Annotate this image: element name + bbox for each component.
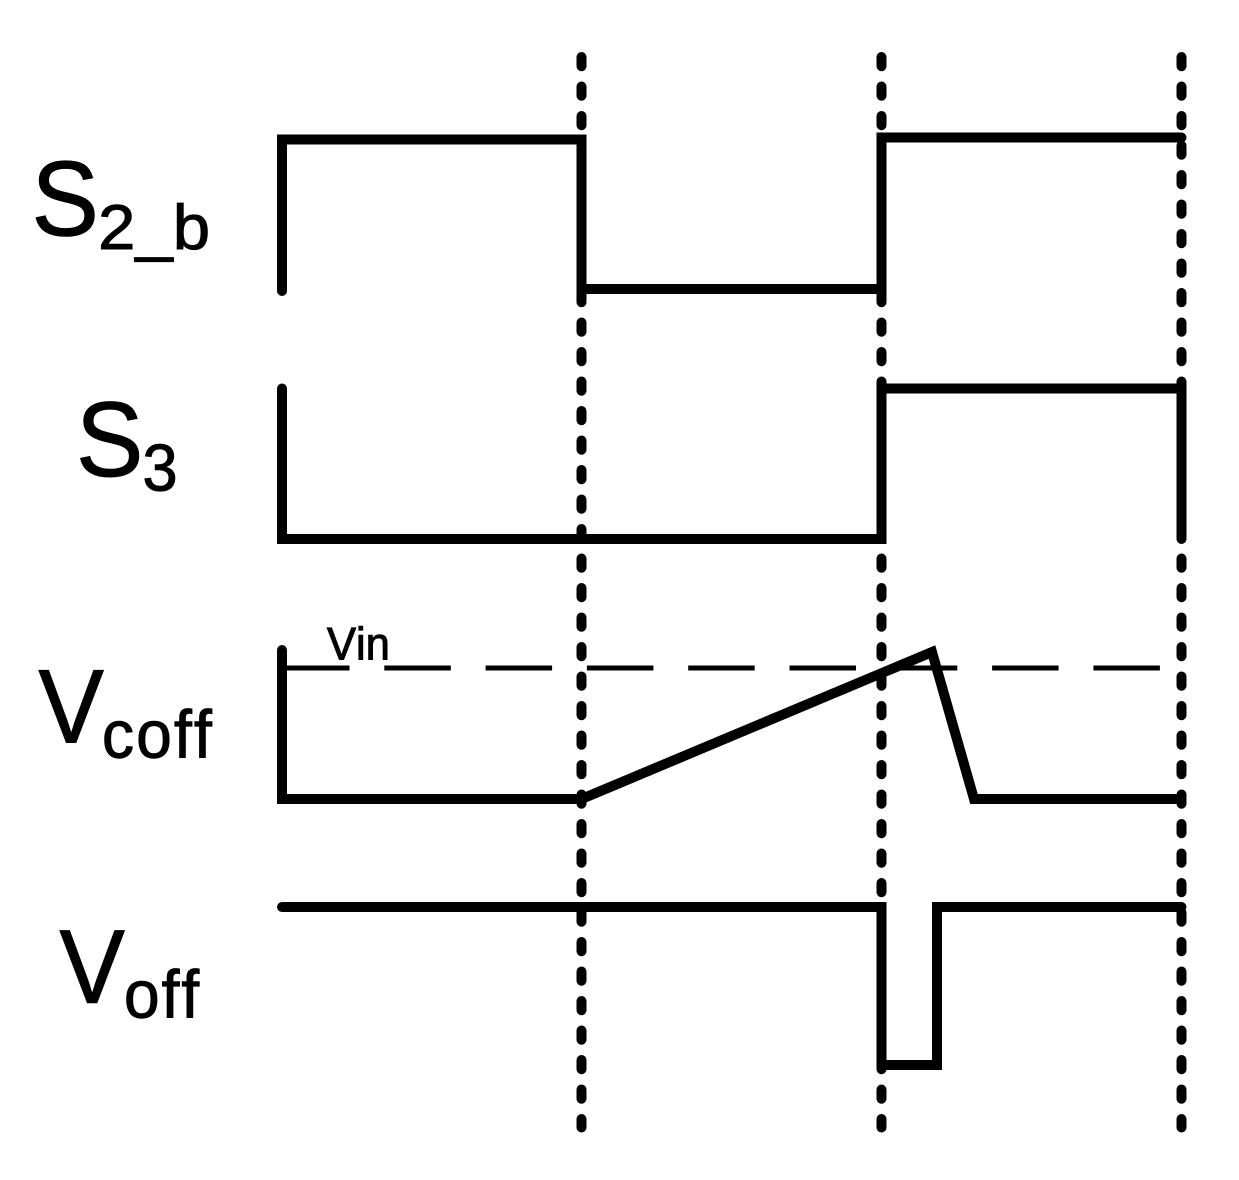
- waveform S2_b: [282, 138, 1182, 292]
- label Voff : subscript "off": [127, 969, 200, 1019]
- label S2_b : "S": [36, 161, 94, 236]
- waveform Vcoff: [282, 650, 1182, 799]
- time marker t3 (vertical dashed line): [1177, 57, 1187, 1128]
- time marker t1 (vertical dashed line): [577, 57, 587, 1128]
- label Vcoff : "V": [39, 670, 104, 742]
- label Vin: [327, 626, 387, 659]
- waveform S3: [282, 389, 1182, 540]
- Vin reference level (horizontal dashed line): [283, 666, 1160, 671]
- time marker t2 (vertical dashed line): [877, 57, 887, 1128]
- label Vcoff : subscript "coff": [105, 709, 212, 759]
- label S3 : "S": [81, 402, 139, 477]
- label S2_b : subscript "2_b": [101, 203, 207, 262]
- label S3 : subscript "3": [145, 444, 175, 491]
- label Voff : "V": [60, 931, 125, 1003]
- waveform Voff: [282, 907, 1182, 1065]
